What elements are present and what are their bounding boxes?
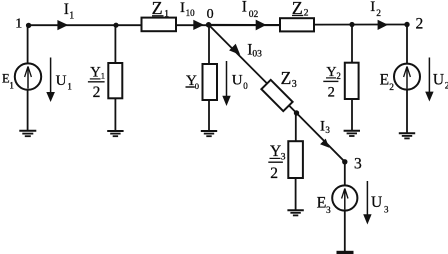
value label Z1 bbox=[152, 0, 170, 20]
svg-text:E: E bbox=[317, 195, 327, 212]
svg-text:U: U bbox=[232, 73, 243, 89]
svg-text:I: I bbox=[320, 118, 325, 134]
voltage label U0 bbox=[232, 73, 249, 91]
wire Y3/2 branch top bbox=[295, 113, 297, 141]
ground Y3/2 bbox=[287, 210, 303, 215]
svg-text:I: I bbox=[370, 0, 375, 15]
current arrow I10 bbox=[193, 20, 204, 30]
wire E2 branch top bbox=[406, 25, 408, 64]
voltage arrow U1 bbox=[46, 58, 55, 103]
svg-text:E: E bbox=[380, 72, 389, 89]
voltage arrow U3 bbox=[363, 181, 371, 225]
svg-text:3: 3 bbox=[325, 125, 330, 135]
admittance Y3/2 box bbox=[288, 141, 303, 178]
svg-text:0: 0 bbox=[207, 7, 214, 22]
svg-text:2: 2 bbox=[416, 15, 424, 32]
svg-text:03: 03 bbox=[252, 50, 262, 60]
wire Y1/2 branch bottom bbox=[114, 98, 116, 131]
svg-text:2: 2 bbox=[336, 71, 341, 81]
svg-text:Y: Y bbox=[270, 143, 281, 160]
svg-text:0: 0 bbox=[243, 81, 248, 91]
wire Y3/2 branch bottom bbox=[295, 178, 297, 210]
resistor Z3 bbox=[261, 80, 292, 111]
wire Z2 to node2 bbox=[314, 24, 407, 26]
node junction Y2 bbox=[349, 22, 354, 27]
value label Y1/2 bbox=[88, 65, 105, 102]
svg-text:Y: Y bbox=[90, 65, 101, 81]
voltage label U2 bbox=[433, 72, 448, 92]
svg-text:2: 2 bbox=[328, 84, 335, 100]
source E2 bbox=[394, 64, 420, 90]
node junction Y3 bbox=[294, 110, 299, 115]
wire Y0 branch top bbox=[208, 25, 210, 64]
wire E3 branch top bbox=[344, 162, 346, 186]
svg-text:0: 0 bbox=[195, 81, 199, 91]
resistor Z1 bbox=[142, 18, 177, 32]
current label I02 bbox=[242, 0, 259, 20]
admittance Y2/2 box bbox=[345, 63, 359, 99]
svg-text:I: I bbox=[242, 0, 247, 15]
wire E1 branch top bbox=[27, 25, 29, 63]
wire node1 to Z1 bbox=[27, 24, 142, 26]
voltage label U1 bbox=[56, 73, 72, 91]
svg-text:U: U bbox=[371, 194, 382, 211]
wire E2 branch bottom bbox=[406, 90, 408, 133]
svg-text:U: U bbox=[56, 73, 67, 89]
current arrow I03 bbox=[229, 44, 240, 55]
wire diagonal junction to node3 bbox=[297, 113, 345, 162]
wire Z1 to node0 bbox=[176, 24, 280, 26]
wire node0 to Z2 (same run) bbox=[209, 24, 280, 26]
svg-text:1: 1 bbox=[101, 71, 105, 81]
svg-text:3: 3 bbox=[354, 156, 362, 173]
wire E3 branch bottom bbox=[344, 211, 346, 251]
current label I10 bbox=[180, 0, 195, 18]
svg-text:I: I bbox=[64, 1, 69, 18]
wire diagonal node0 to junction bbox=[209, 25, 297, 113]
svg-text:I: I bbox=[180, 0, 185, 16]
svg-text:3: 3 bbox=[292, 79, 297, 90]
svg-text:1: 1 bbox=[15, 17, 22, 32]
source label E1 bbox=[2, 71, 14, 90]
value label Y3/2 bbox=[268, 143, 286, 182]
node junction Y1 bbox=[113, 23, 118, 28]
svg-text:U: U bbox=[433, 72, 444, 89]
source E3 bbox=[332, 185, 357, 210]
wire Y1/2 branch top bbox=[114, 25, 116, 63]
svg-text:1: 1 bbox=[69, 11, 74, 22]
node 0 bbox=[206, 22, 212, 28]
ground Y1/2 bbox=[107, 131, 123, 136]
source label E2 bbox=[380, 72, 395, 93]
value label Z3 bbox=[281, 68, 297, 90]
svg-text:02: 02 bbox=[249, 10, 259, 20]
value label Y2/2 bbox=[323, 65, 341, 100]
ground E2 bbox=[399, 133, 415, 138]
current arrow I1 bbox=[57, 20, 68, 30]
svg-text:2: 2 bbox=[304, 8, 309, 18]
svg-text:3: 3 bbox=[384, 205, 389, 215]
value label Y0 bbox=[186, 73, 199, 91]
voltage arrow U0 bbox=[222, 61, 230, 106]
admittance Y1/2 box bbox=[108, 63, 122, 98]
current label I2 bbox=[370, 0, 381, 19]
source label E3 bbox=[317, 195, 331, 216]
ground E1 bbox=[19, 131, 36, 136]
svg-text:10: 10 bbox=[186, 8, 196, 18]
wire Y0 branch bottom bbox=[208, 100, 210, 131]
svg-text:3: 3 bbox=[326, 206, 331, 216]
resistor Z2 bbox=[280, 18, 314, 31]
current label I03 bbox=[247, 42, 262, 60]
voltage arrow U2 bbox=[425, 58, 433, 102]
voltage label U3 bbox=[371, 194, 389, 215]
wire Y2/2 branch bottom bbox=[351, 99, 353, 131]
ground E3 bbox=[337, 251, 354, 254]
svg-text:2: 2 bbox=[376, 9, 381, 19]
current label I3 bbox=[320, 118, 330, 135]
svg-text:3: 3 bbox=[281, 152, 286, 162]
value label Z2 bbox=[292, 0, 309, 18]
svg-text:1: 1 bbox=[67, 81, 72, 91]
svg-text:Z: Z bbox=[281, 68, 292, 88]
ground Y0 bbox=[201, 131, 217, 136]
svg-text:2: 2 bbox=[389, 83, 394, 93]
svg-text:1: 1 bbox=[9, 81, 14, 91]
current label I1 bbox=[64, 1, 75, 22]
current arrow I3 bbox=[320, 139, 329, 148]
node 1 bbox=[26, 23, 31, 28]
admittance Y0 box bbox=[203, 64, 218, 100]
wire E1 branch bottom bbox=[27, 90, 29, 131]
svg-text:2: 2 bbox=[270, 165, 278, 182]
node 3 bbox=[342, 159, 347, 164]
node 2 bbox=[404, 22, 409, 27]
current arrow I2 bbox=[378, 20, 388, 30]
current arrow I02 bbox=[256, 20, 267, 31]
wire Y2/2 branch top bbox=[351, 25, 353, 63]
source E1 bbox=[15, 63, 41, 89]
svg-text:2: 2 bbox=[93, 84, 101, 101]
ground Y2/2 bbox=[344, 131, 360, 136]
svg-text:1: 1 bbox=[164, 10, 169, 20]
